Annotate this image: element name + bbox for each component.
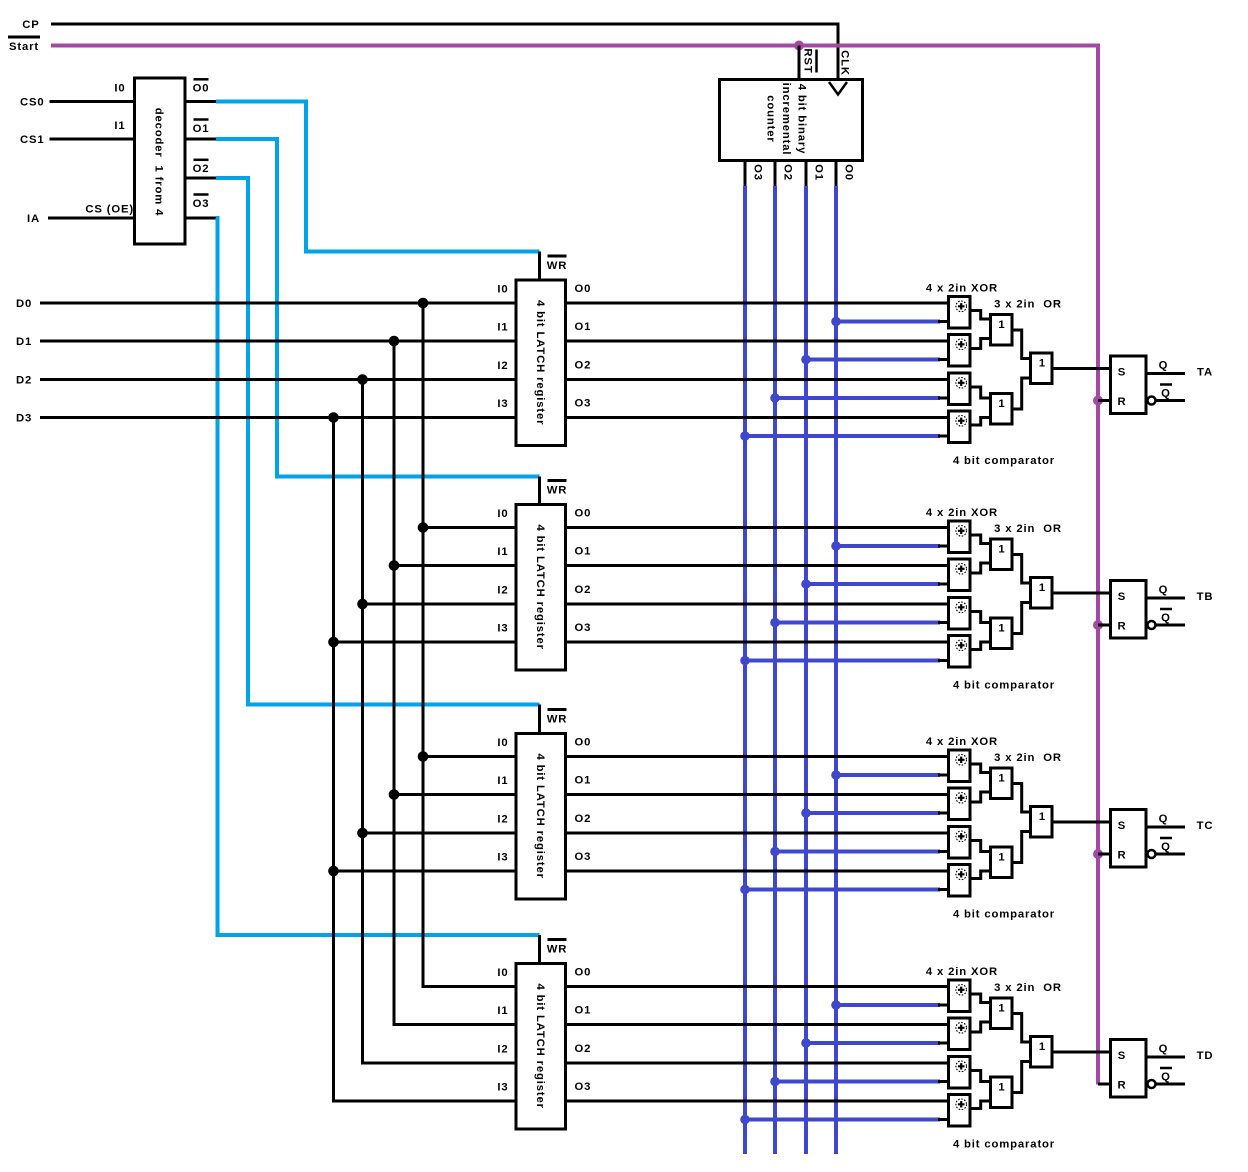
wire OR2 output to OR3 (group TC)	[1012, 832, 1031, 863]
svg-text:4 bit LATCH register: 4 bit LATCH register	[534, 525, 546, 650]
wire OR2 output to OR3 (group TD)	[1012, 1062, 1031, 1093]
wire latch U6 O3 to XOR	[566, 1100, 949, 1103]
wire XOR3 output to OR (group TB)	[970, 612, 991, 623]
or gate O5 box	[991, 618, 1013, 649]
wire D2 stub to latch 2 I2	[363, 603, 517, 606]
or gate O9 box	[1031, 807, 1053, 838]
or gate O11 box	[991, 1077, 1013, 1108]
wire D0 vertical bus	[422, 303, 425, 987]
label Qbar overbar (group TD)	[1160, 1067, 1172, 1070]
xor gate X11 symbol	[956, 831, 967, 842]
xor gate X3 box	[949, 373, 971, 405]
latch U6 (4 bit LATCH register) box	[516, 964, 566, 1130]
decoder pin label O3 overbar	[194, 193, 209, 196]
wire XOR4 output to OR (group TA)	[970, 418, 991, 426]
wire OR3 output to SR latch S (group TB)	[1052, 592, 1111, 595]
junction Start net at SR latch TC R	[1093, 849, 1103, 859]
wire latch U4 O3 to XOR	[566, 641, 949, 644]
wire XOR2 input stub (group TB)	[938, 583, 949, 586]
xor gate X4 symbol	[956, 416, 967, 427]
wire XOR2 output to OR (group TB)	[970, 563, 991, 573]
decoder U1 box	[135, 78, 186, 244]
xor gate X10 box	[949, 788, 971, 820]
svg-text:TB: TB	[1197, 591, 1214, 603]
counter pin O0 stub	[835, 159, 838, 188]
wire D1 stub to latch 2 I1	[394, 564, 516, 567]
net counter bit O3 tap junction (group TA XOR4)	[740, 431, 750, 441]
wire Q output (group TC)	[1146, 826, 1185, 829]
svg-text:I3: I3	[497, 623, 508, 635]
svg-text:O1: O1	[575, 321, 592, 333]
clock edge triangle on CLK pin	[829, 82, 847, 95]
svg-text:I0: I0	[114, 83, 125, 95]
svg-text:O2: O2	[782, 164, 794, 181]
wire WR stub latch 3	[538, 705, 541, 736]
wire R stub (group TA)	[1098, 399, 1111, 402]
svg-text:decoder 1 from 4: decoder 1 from 4	[153, 108, 165, 217]
wire latch U5 O1 to XOR	[566, 793, 949, 796]
svg-text:Q: Q	[1161, 612, 1171, 624]
svg-text:O0: O0	[575, 283, 592, 295]
svg-text:Q: Q	[1161, 1071, 1171, 1083]
wire latch U6 O2 to XOR	[566, 1062, 949, 1065]
wire CS0 to decoder I0	[50, 100, 135, 103]
wire D2 elbow to latch 4 I2	[361, 1062, 516, 1065]
xor gate X12 symbol	[956, 869, 967, 880]
svg-text:O1: O1	[575, 1005, 592, 1017]
svg-text:O3: O3	[575, 622, 592, 634]
or gate O4 box	[991, 539, 1013, 570]
wire latch U5 O3 to XOR	[566, 870, 949, 873]
latch U5 (4 bit LATCH register) box	[516, 734, 566, 900]
net O0 (counter output) vertical bus	[834, 186, 838, 1154]
svg-text:O0: O0	[575, 737, 592, 749]
decoder pin O1 stub	[185, 138, 218, 141]
xor gate X16 box	[949, 1095, 971, 1127]
svg-text:1: 1	[998, 1082, 1005, 1094]
wire WR stub latch 4	[538, 935, 541, 966]
svg-text:1: 1	[998, 544, 1005, 556]
wire XOR1 output to OR (group TA)	[970, 311, 991, 320]
junction D3 at latch 3	[328, 866, 339, 877]
sr latch U7 Qbar bubble	[1148, 397, 1156, 405]
wire CP (clock) to counter CLK	[51, 24, 838, 80]
net counter bit O0 tap junction (group TC XOR1)	[831, 770, 841, 780]
svg-text:Q: Q	[1161, 388, 1171, 400]
svg-text:R: R	[1117, 850, 1126, 862]
wire Q output (group TD)	[1146, 1056, 1185, 1059]
wire latch U6 O0 to XOR	[566, 985, 949, 988]
wire WR stub latch 2	[538, 477, 541, 507]
junction Start net at SR latch TB R	[1093, 620, 1103, 630]
counter U2 box	[720, 80, 863, 161]
wire D3 stub to latch 2 I3	[334, 641, 517, 644]
svg-text:O2: O2	[575, 584, 592, 596]
wire XOR1 input stub (group TD)	[938, 1004, 949, 1007]
junction D1 at latch 2	[389, 560, 400, 571]
xor gate X9 box	[949, 750, 971, 782]
svg-text:1: 1	[998, 623, 1005, 635]
svg-text:incremental: incremental	[780, 83, 792, 156]
svg-text:4 bit comparator: 4 bit comparator	[953, 909, 1055, 921]
svg-text:4 x 2in XOR: 4 x 2in XOR	[926, 736, 998, 748]
svg-text:TC: TC	[1197, 820, 1214, 832]
xor gate X10 symbol	[956, 793, 967, 804]
wire WR stub latch 1	[538, 252, 541, 283]
svg-text:O3: O3	[575, 851, 592, 863]
net O3 (counter output) vertical bus	[743, 186, 747, 1154]
xor gate X16 symbol	[956, 1099, 967, 1110]
svg-text:4 x 2in XOR: 4 x 2in XOR	[926, 966, 998, 978]
svg-text:I0: I0	[497, 737, 508, 749]
wire OR1 output to OR3 (group TD)	[1012, 1014, 1031, 1043]
wire Qbar output (group TC)	[1156, 853, 1186, 856]
wire R stub (group TB)	[1098, 624, 1111, 627]
svg-text:Start: Start	[9, 41, 39, 53]
pin label RST overbar	[815, 50, 818, 73]
wire XOR2 output to OR (group TD)	[970, 1022, 991, 1032]
svg-text:1: 1	[1039, 582, 1046, 594]
svg-text:1: 1	[1039, 1041, 1046, 1053]
wire OR1 output to OR3 (group TC)	[1012, 784, 1031, 813]
svg-text:O2: O2	[575, 813, 592, 825]
svg-text:4 x 2in XOR: 4 x 2in XOR	[926, 283, 998, 295]
or gate O1 box	[991, 315, 1013, 346]
sr latch U8 box	[1111, 581, 1147, 639]
net counter bit O0 tap junction (group TA XOR1)	[831, 317, 841, 327]
xor gate X4 box	[949, 411, 971, 443]
svg-text:D0: D0	[16, 298, 32, 310]
wire D0 elbow to latch 4 I0	[422, 985, 517, 988]
wire counter bit to XOR4 (group TA), blue	[745, 434, 940, 438]
sr latch U8 Qbar bubble	[1148, 621, 1156, 629]
net counter bit O1 tap junction (group TA XOR2)	[801, 355, 811, 365]
wire latch U5 O2 to XOR	[566, 832, 949, 835]
decoder pin O0 stub	[185, 100, 218, 103]
net counter bit O0 tap junction (group TB XOR1)	[831, 541, 841, 551]
svg-text:D2: D2	[16, 375, 32, 387]
svg-text:Q: Q	[1159, 360, 1169, 372]
wire D1 horizontal to latch 1 I1	[40, 340, 516, 343]
wire latch U3 O1 to XOR	[566, 340, 949, 343]
wire D3 horizontal to latch 1 I3	[40, 416, 516, 419]
wire R stub (group TD)	[1098, 1083, 1111, 1086]
junction D3 at latch 1	[328, 412, 339, 423]
wire XOR2 input stub (group TA)	[938, 358, 949, 361]
wire latch U4 O0 to XOR	[566, 526, 949, 529]
svg-text:3 x 2in OR: 3 x 2in OR	[994, 299, 1062, 311]
decoder pin O3 stub	[185, 217, 218, 220]
svg-text:CLK: CLK	[839, 50, 851, 76]
svg-text:D1: D1	[16, 336, 32, 348]
wire XOR3 output to OR (group TA)	[970, 387, 991, 398]
wire XOR4 output to OR (group TD)	[970, 1101, 991, 1109]
wire XOR1 output to OR (group TD)	[970, 994, 991, 1003]
net counter bit O3 tap junction (group TD XOR4)	[740, 1115, 750, 1125]
svg-text:O3: O3	[193, 198, 210, 210]
wire D2 vertical bus	[361, 380, 364, 1064]
junction D2 at latch 2	[357, 599, 368, 610]
wire latch U4 O1 to XOR	[566, 564, 949, 567]
wire latch U3 O2 to XOR	[566, 378, 949, 381]
wire OR3 output to SR latch S (group TA)	[1052, 367, 1111, 370]
xor gate X12 box	[949, 865, 971, 897]
wire counter bit to XOR2 (group TB), blue	[806, 582, 940, 586]
wire IA to decoder CS(OE)	[48, 217, 135, 220]
wire OR3 output to SR latch S (group TC)	[1052, 821, 1111, 824]
wire XOR3 input stub (group TB)	[938, 621, 949, 624]
latch U3 WR label overbar	[548, 255, 567, 258]
wire counter bit to XOR3 (group TA), blue	[775, 396, 940, 400]
wire D0 horizontal to latch 1 I0	[40, 302, 516, 305]
svg-text:S: S	[1118, 1050, 1126, 1062]
wire counter bit to XOR1 (group TD), blue	[836, 1003, 940, 1007]
xor gate X8 box	[949, 636, 971, 668]
svg-text:I0: I0	[497, 508, 508, 520]
svg-text:R: R	[1117, 396, 1126, 408]
wire latch U3 O3 to XOR	[566, 416, 949, 419]
svg-text:O0: O0	[575, 967, 592, 979]
svg-text:TD: TD	[1197, 1050, 1214, 1062]
decoder pin label O1 overbar	[194, 118, 209, 121]
svg-text:I2: I2	[497, 1044, 508, 1056]
xor gate X7 symbol	[956, 602, 967, 613]
net counter bit O3 tap junction (group TC XOR4)	[740, 885, 750, 895]
wire latch U4 O2 to XOR	[566, 603, 949, 606]
wire latch U6 O1 to XOR	[566, 1023, 949, 1026]
wire XOR4 input stub (group TA)	[938, 435, 949, 438]
svg-text:I2: I2	[497, 814, 508, 826]
wire D3 vertical bus	[332, 418, 335, 1102]
svg-text:WR: WR	[547, 485, 568, 497]
wire Start (active-low reset net, purple)	[51, 46, 1098, 1085]
net counter bit O2 tap junction (group TA XOR3)	[770, 393, 780, 403]
latch U4 (4 bit LATCH register) box	[516, 505, 566, 671]
wire XOR3 output to OR (group TD)	[970, 1071, 991, 1082]
svg-text:counter: counter	[765, 95, 777, 142]
wire Qbar output (group TA)	[1156, 399, 1186, 402]
svg-text:4 x 2in XOR: 4 x 2in XOR	[926, 507, 998, 519]
label Qbar overbar (group TC)	[1160, 837, 1172, 840]
svg-text:1: 1	[998, 319, 1005, 331]
net O3 (decoder) to latch 4 WR, cyan wire	[216, 218, 540, 935]
net counter bit O1 tap junction (group TB XOR2)	[801, 579, 811, 589]
wire XOR1 input stub (group TC)	[938, 774, 949, 777]
junction Start net at SR latch TA R	[1093, 396, 1103, 406]
junction D0 at latch 3	[418, 751, 429, 762]
junction D0 at latch 2	[418, 522, 429, 533]
wire Qbar output (group TD)	[1156, 1083, 1186, 1086]
wire XOR1 output to OR (group TC)	[970, 764, 991, 773]
wire counter bit to XOR4 (group TD), blue	[745, 1118, 940, 1122]
svg-text:O2: O2	[193, 163, 210, 175]
xor gate X5 box	[949, 521, 971, 553]
wire D2 horizontal to latch 1 I2	[40, 378, 516, 381]
xor gate X14 box	[949, 1018, 971, 1050]
svg-text:I0: I0	[497, 967, 508, 979]
svg-text:I2: I2	[497, 360, 508, 372]
svg-text:WR: WR	[547, 714, 568, 726]
xor gate X5 symbol	[956, 526, 967, 537]
wire OR3 output to SR latch S (group TD)	[1052, 1051, 1111, 1054]
svg-text:CS0: CS0	[20, 97, 45, 109]
junction D1 at latch 1	[389, 336, 400, 347]
junction D2 at latch 1	[357, 374, 368, 385]
svg-text:O1: O1	[193, 123, 210, 135]
wire OR1 output to OR3 (group TA)	[1012, 330, 1031, 359]
svg-text:CS (OE): CS (OE)	[85, 204, 134, 216]
wire OR1 output to OR3 (group TB)	[1012, 555, 1031, 584]
wire R stub (group TC)	[1098, 853, 1111, 856]
wire D1 vertical bus	[393, 341, 396, 1025]
xor gate X15 symbol	[956, 1061, 967, 1072]
wire D2 stub to latch 3 I2	[363, 832, 517, 835]
wire Q output (group TA)	[1146, 372, 1185, 375]
svg-text:1: 1	[998, 1003, 1005, 1015]
svg-text:I3: I3	[497, 1082, 508, 1094]
svg-text:Q: Q	[1159, 813, 1169, 825]
svg-text:I1: I1	[497, 322, 508, 334]
svg-text:4 bit LATCH register: 4 bit LATCH register	[534, 300, 546, 425]
svg-text:CS1: CS1	[20, 134, 45, 146]
svg-text:4 bit LATCH register: 4 bit LATCH register	[534, 754, 546, 879]
wire XOR4 output to OR (group TB)	[970, 642, 991, 650]
net O1 (decoder) to latch 2 WR, cyan wire	[216, 139, 540, 477]
svg-text:4 bit comparator: 4 bit comparator	[953, 680, 1055, 692]
svg-text:Q: Q	[1159, 1043, 1169, 1055]
xor gate X3 symbol	[956, 378, 967, 389]
svg-text:S: S	[1118, 820, 1126, 832]
wire XOR3 input stub (group TD)	[938, 1080, 949, 1083]
wire counter bit to XOR1 (group TB), blue	[836, 544, 940, 548]
svg-text:Q: Q	[1159, 584, 1169, 596]
wire OR2 output to OR3 (group TB)	[1012, 603, 1031, 634]
svg-text:R: R	[1117, 621, 1126, 633]
svg-text:WR: WR	[547, 944, 568, 956]
wire counter bit to XOR2 (group TA), blue	[806, 358, 940, 362]
xor gate X6 symbol	[956, 564, 967, 575]
svg-text:O0: O0	[193, 83, 210, 95]
decoder pin label O0 overbar	[194, 78, 209, 81]
wire counter bit to XOR3 (group TC), blue	[775, 850, 940, 854]
wire counter bit to XOR3 (group TB), blue	[775, 621, 940, 625]
wire D3 stub to latch 3 I3	[334, 870, 517, 873]
svg-text:TA: TA	[1197, 367, 1213, 379]
svg-text:S: S	[1118, 591, 1126, 603]
svg-text:I0: I0	[497, 284, 508, 296]
wire counter bit to XOR1 (group TC), blue	[836, 773, 940, 777]
decoder pin label O2 overbar	[194, 159, 209, 162]
svg-text:O0: O0	[575, 508, 592, 520]
wire CS1 to decoder I1	[50, 138, 135, 141]
svg-text:Q: Q	[1161, 841, 1171, 853]
xor gate X13 symbol	[956, 985, 967, 996]
junction D0 at latch 1	[418, 298, 429, 309]
wire D1 stub to latch 3 I1	[394, 793, 516, 796]
wire Q output (group TB)	[1146, 597, 1185, 600]
latch U6 WR label overbar	[548, 938, 567, 941]
decoder pin O2 stub	[185, 177, 218, 180]
svg-text:I1: I1	[497, 775, 508, 787]
net counter bit O1 tap junction (group TD XOR2)	[801, 1038, 811, 1048]
wire RST stub to counter	[798, 46, 801, 82]
junction D2 at latch 3	[357, 828, 368, 839]
svg-text:I2: I2	[497, 585, 508, 597]
or gate O10 box	[991, 998, 1013, 1029]
counter pin O2 stub	[774, 159, 777, 188]
sr latch U10 Qbar bubble	[1148, 1080, 1156, 1088]
xor gate X2 box	[949, 335, 971, 367]
xor gate X7 box	[949, 598, 971, 630]
xor gate X2 symbol	[956, 339, 967, 350]
wire XOR1 input stub (group TA)	[938, 320, 949, 323]
wire XOR4 input stub (group TC)	[938, 888, 949, 891]
xor gate X9 symbol	[956, 755, 967, 766]
label Qbar overbar (group TB)	[1160, 608, 1172, 611]
svg-text:O1: O1	[813, 164, 825, 181]
svg-text:1: 1	[998, 773, 1005, 785]
svg-text:4 bit comparator: 4 bit comparator	[953, 1139, 1055, 1151]
svg-text:CP: CP	[22, 19, 39, 31]
sr latch U7 box	[1111, 356, 1147, 414]
wire XOR4 output to OR (group TC)	[970, 871, 991, 879]
svg-text:3 x 2in OR: 3 x 2in OR	[994, 752, 1062, 764]
sr latch U9 Qbar bubble	[1148, 850, 1156, 858]
svg-text:O2: O2	[575, 1043, 592, 1055]
net counter bit O2 tap junction (group TC XOR3)	[770, 847, 780, 857]
svg-text:1: 1	[1039, 358, 1046, 370]
svg-text:O2: O2	[575, 360, 592, 372]
or gate O12 box	[1031, 1037, 1053, 1068]
svg-text:D3: D3	[16, 413, 32, 425]
junction D3 at latch 2	[328, 637, 339, 648]
wire counter bit to XOR2 (group TC), blue	[806, 811, 940, 815]
or gate O2 box	[991, 394, 1013, 425]
xor gate X1 symbol	[956, 301, 967, 312]
wire XOR2 output to OR (group TA)	[970, 339, 991, 349]
svg-text:O1: O1	[575, 775, 592, 787]
net counter bit O0 tap junction (group TD XOR1)	[831, 1000, 841, 1010]
svg-text:4 bit comparator: 4 bit comparator	[953, 455, 1055, 467]
junction Start net at RST	[794, 41, 804, 51]
xor gate X1 box	[949, 297, 971, 329]
svg-text:S: S	[1118, 367, 1126, 379]
wire latch U3 O0 to XOR	[566, 302, 949, 305]
latch U5 WR label overbar	[548, 708, 567, 711]
counter pin O3 stub	[744, 159, 747, 188]
svg-text:WR: WR	[547, 260, 568, 272]
xor gate X6 box	[949, 559, 971, 591]
svg-text:3 x 2in OR: 3 x 2in OR	[994, 982, 1062, 994]
net O2 (decoder) to latch 3 WR, cyan wire	[216, 178, 540, 705]
label Qbar overbar (group TA)	[1160, 383, 1172, 386]
svg-text:I1: I1	[497, 546, 508, 558]
svg-text:I3: I3	[497, 852, 508, 864]
svg-text:O3: O3	[575, 398, 592, 410]
wire D0 stub to latch 2 I0	[423, 526, 516, 529]
wire XOR3 output to OR (group TC)	[970, 841, 991, 852]
wire D1 elbow to latch 4 I1	[393, 1023, 517, 1026]
wire counter bit to XOR1 (group TA), blue	[836, 320, 940, 324]
net O0 (decoder) to latch 1 WR, cyan wire	[216, 102, 540, 252]
or gate O6 box	[1031, 578, 1053, 609]
wire XOR3 input stub (group TC)	[938, 850, 949, 853]
label Start overbar	[8, 36, 40, 39]
sr latch U10 box	[1111, 1040, 1147, 1098]
net O1 (counter output) vertical bus	[804, 186, 808, 1154]
wire XOR2 input stub (group TC)	[938, 812, 949, 815]
svg-text:3 x 2in OR: 3 x 2in OR	[994, 523, 1062, 535]
